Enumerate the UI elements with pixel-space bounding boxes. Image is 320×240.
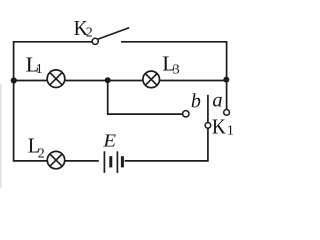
wire branch horizontal to contact b xyxy=(107,113,183,115)
svg-text:E: E xyxy=(102,131,116,151)
svg-text:1: 1 xyxy=(227,124,234,139)
svg-text:a: a xyxy=(212,90,222,112)
scan artifact left edge xyxy=(0,84,2,188)
svg-text:2: 2 xyxy=(38,146,45,161)
svg-text:1: 1 xyxy=(36,62,43,77)
lamp L2 cross xyxy=(50,154,62,166)
lamp L3 circle xyxy=(143,71,160,88)
svg-text:K: K xyxy=(212,115,226,139)
switch K2 blade xyxy=(98,28,130,40)
svg-text:b: b xyxy=(191,91,201,113)
wire branch vertical from middle junction xyxy=(107,80,109,114)
junction node middle (branch take-off) xyxy=(105,77,111,83)
contact b circle xyxy=(183,111,189,117)
wire bottom horizontal left segment xyxy=(14,160,99,162)
wire bottom horizontal right segment xyxy=(125,160,208,162)
wire right vertical (top corner to contact a) xyxy=(226,41,228,111)
wire middle horizontal xyxy=(14,80,227,82)
svg-text:3: 3 xyxy=(173,63,180,78)
wire left vertical xyxy=(13,41,15,162)
svg-text:2: 2 xyxy=(86,26,93,41)
contact a circle xyxy=(224,110,230,116)
lamp L3 cross xyxy=(145,74,157,86)
battery E cell1 long plate xyxy=(103,151,105,173)
battery E cell2 long plate xyxy=(116,151,118,173)
wire switch K1 vertical (blade and lower lead) xyxy=(207,95,209,162)
switch K2 pivot contact circle xyxy=(92,38,98,44)
lamp L2 circle xyxy=(47,151,64,168)
switch K1 pivot contact circle xyxy=(205,123,211,129)
lamp L1 circle xyxy=(47,70,65,88)
battery E cell2 short plate xyxy=(121,156,124,167)
junction node left (middle wire / left vertical) xyxy=(11,77,17,83)
battery E cell1 short plate xyxy=(109,156,112,167)
wire top horizontal right segment xyxy=(121,41,227,43)
junction node right (middle wire / right vertical) xyxy=(223,77,229,83)
lamp L1 cross xyxy=(50,73,62,85)
wire top horizontal left segment xyxy=(13,41,94,43)
